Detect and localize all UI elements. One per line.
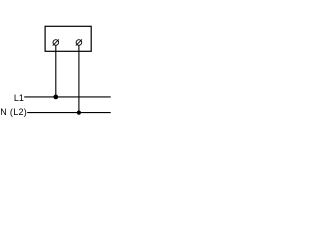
wire L1 supply line [24, 96, 111, 98]
junction dot on L1 [53, 95, 58, 100]
screw terminal 2 [76, 39, 82, 45]
junction box outline [45, 26, 91, 51]
wire N (L2) supply line [27, 112, 111, 114]
wire terminal 1 to L1 [55, 45, 57, 97]
svg-text:N (L2): N (L2) [0, 107, 27, 117]
junction dot on N (L2) [77, 111, 81, 115]
svg-text:L1: L1 [14, 93, 24, 103]
wire terminal 2 to N (L2) [78, 45, 80, 112]
screw terminal 1 [53, 39, 59, 45]
